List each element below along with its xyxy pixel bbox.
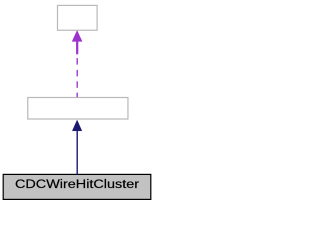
svg-text:CDCWireHitCluster: CDCWireHitCluster (15, 179, 139, 191)
